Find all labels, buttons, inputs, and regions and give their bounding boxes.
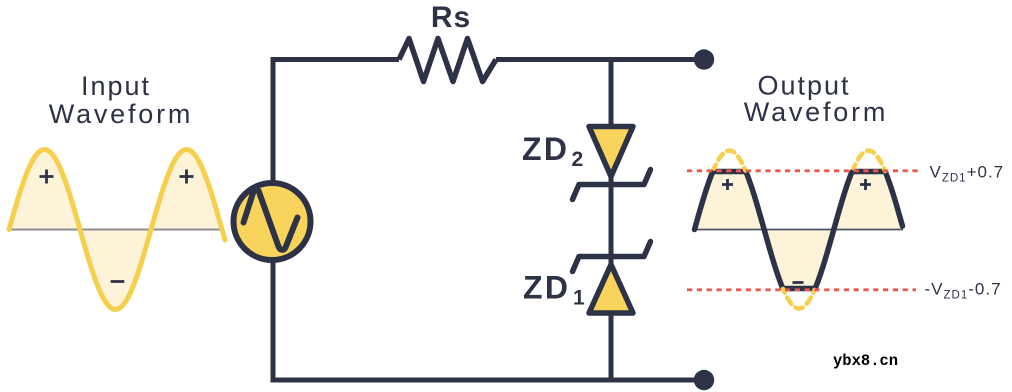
svg-text:Waveform: Waveform: [744, 97, 888, 127]
svg-text:ybx8.cn: ybx8.cn: [833, 352, 898, 370]
svg-text:1: 1: [573, 287, 585, 310]
svg-text:Input: Input: [81, 71, 151, 101]
svg-text:ZD: ZD: [522, 131, 569, 167]
svg-text:-VZD1-0.7: -VZD1-0.7: [925, 280, 1002, 302]
svg-text:2: 2: [572, 148, 584, 171]
svg-text:ZD: ZD: [523, 270, 570, 306]
svg-text:Output: Output: [757, 71, 850, 101]
svg-text:Waveform: Waveform: [49, 99, 193, 129]
svg-text:VZD1+0.7: VZD1+0.7: [930, 163, 1005, 185]
svg-text:Rs: Rs: [431, 1, 471, 34]
